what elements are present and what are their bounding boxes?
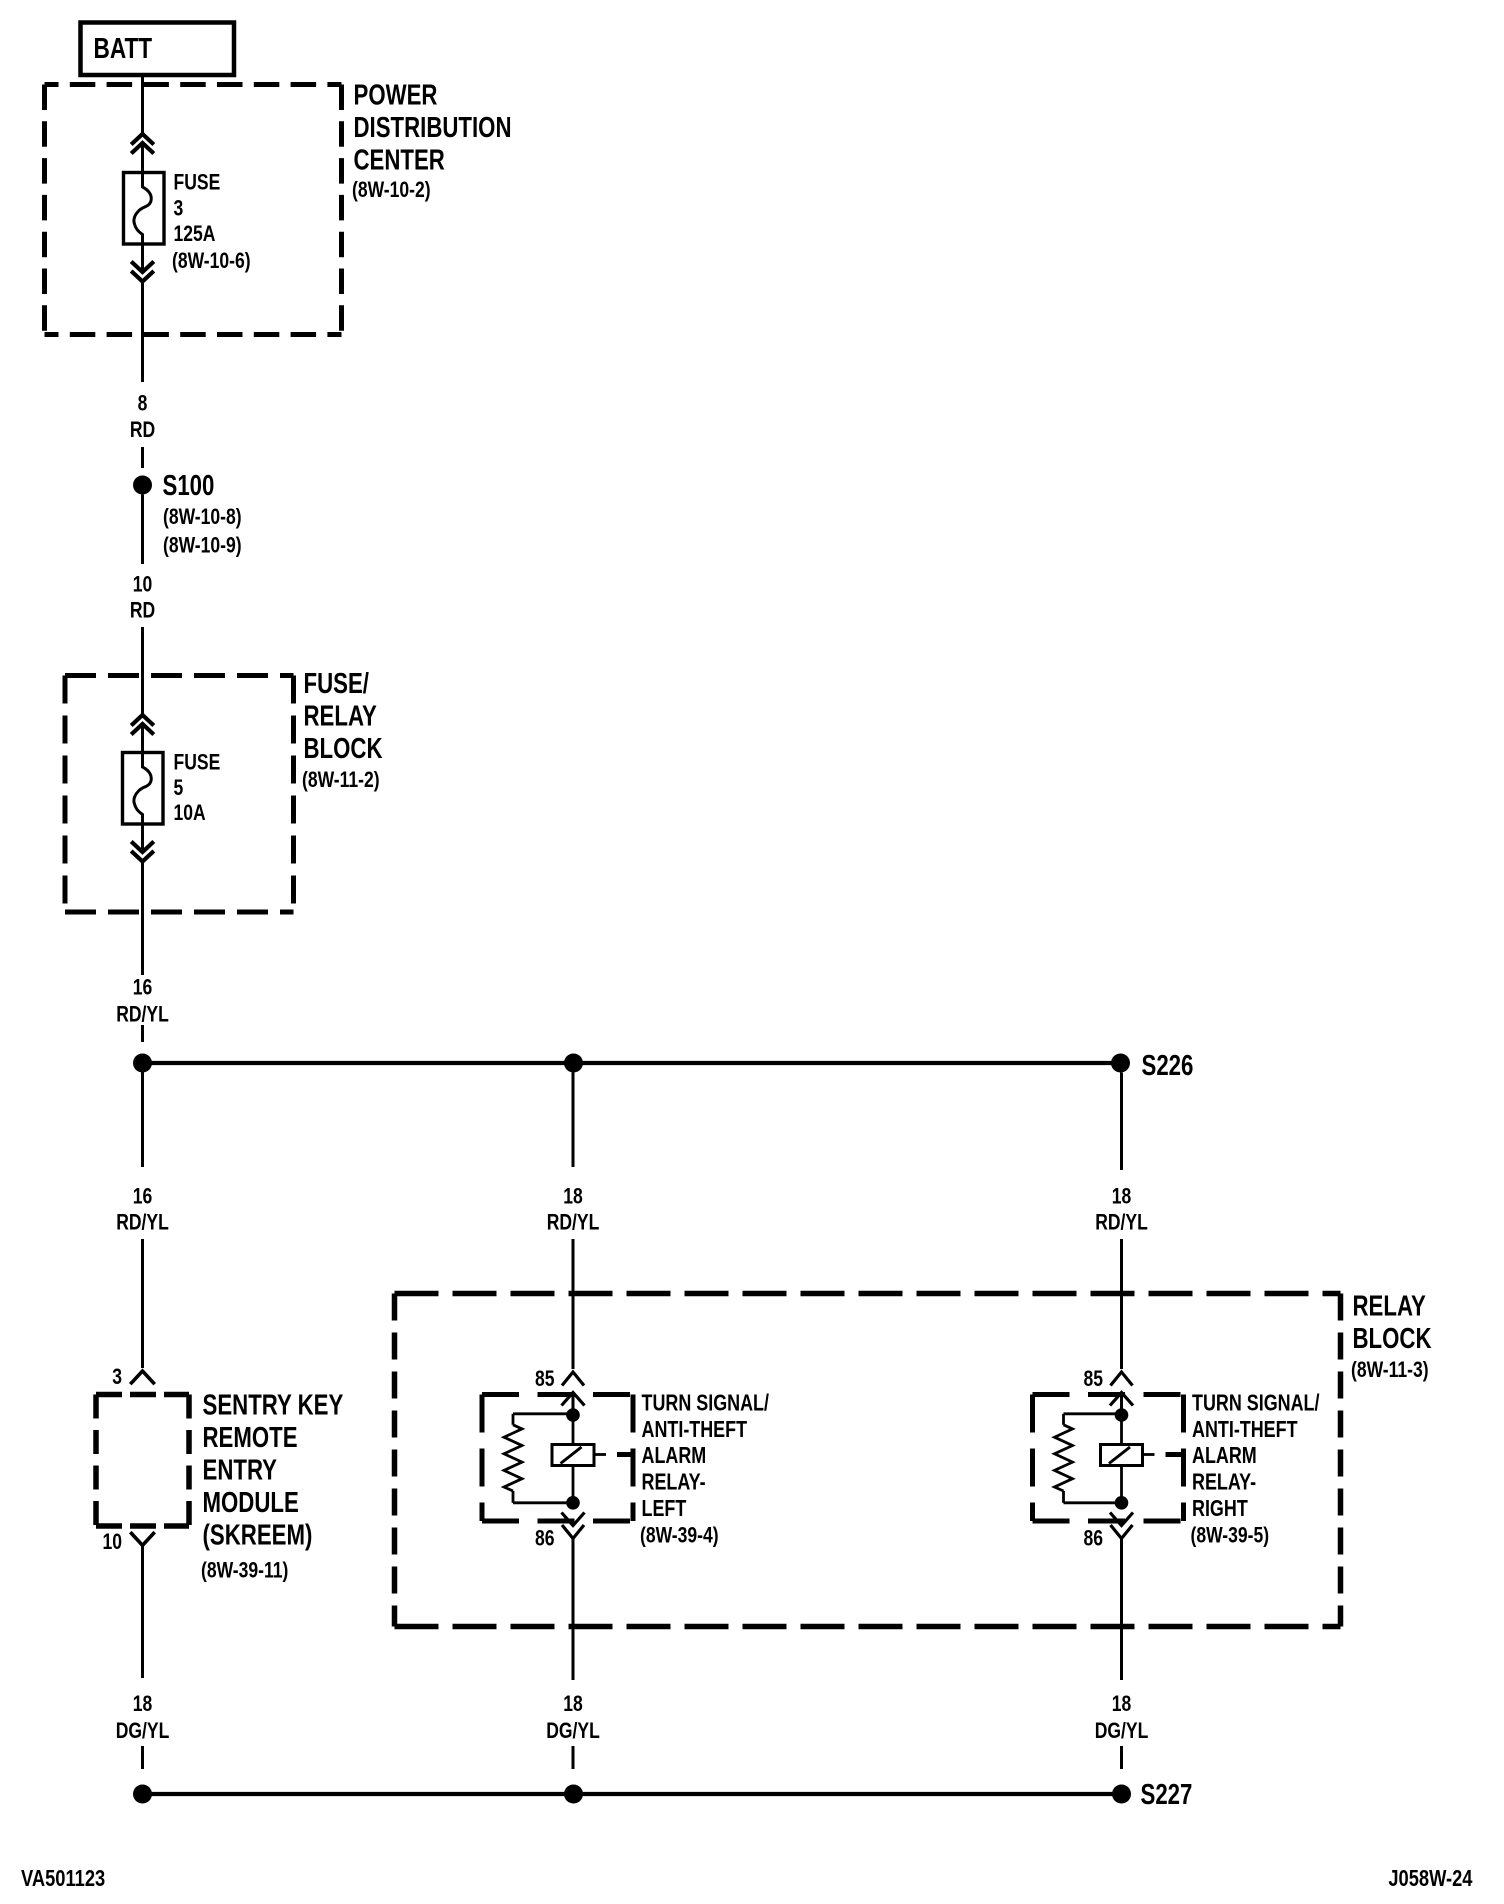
svg-text:RD/YL: RD/YL	[116, 1003, 169, 1028]
svg-text:DISTRIBUTION: DISTRIBUTION	[354, 112, 512, 143]
svg-text:RELAY-: RELAY-	[1192, 1470, 1256, 1496]
svg-text:10A: 10A	[174, 801, 207, 826]
svg-text:RD/YL: RD/YL	[547, 1211, 600, 1236]
svg-text:SENTRY KEY: SENTRY KEY	[203, 1390, 344, 1421]
svg-text:(8W-39-4): (8W-39-4)	[640, 1523, 719, 1548]
svg-text:TURN SIGNAL/: TURN SIGNAL/	[642, 1390, 770, 1416]
svg-text:10: 10	[102, 1530, 122, 1555]
svg-text:ENTRY: ENTRY	[203, 1455, 277, 1486]
svg-text:18: 18	[1112, 1185, 1132, 1210]
svg-text:RELAY: RELAY	[1353, 1291, 1426, 1322]
svg-text:REMOTE: REMOTE	[203, 1422, 298, 1453]
svg-text:BATT: BATT	[94, 31, 153, 64]
svg-text:18: 18	[563, 1185, 583, 1210]
svg-text:(8W-10-2): (8W-10-2)	[352, 178, 431, 203]
svg-text:LEFT: LEFT	[642, 1496, 687, 1522]
svg-text:5: 5	[174, 776, 184, 801]
svg-text:RD: RD	[130, 418, 155, 443]
svg-text:FUSE/: FUSE/	[304, 668, 369, 699]
svg-text:ANTI-THEFT: ANTI-THEFT	[1192, 1417, 1298, 1443]
svg-text:RD/YL: RD/YL	[116, 1211, 169, 1236]
svg-text:DG/YL: DG/YL	[546, 1719, 600, 1744]
svg-text:FUSE: FUSE	[174, 751, 221, 776]
svg-text:ALARM: ALARM	[642, 1443, 707, 1469]
svg-text:VA501123: VA501123	[21, 1866, 105, 1892]
svg-text:16: 16	[133, 1185, 153, 1210]
svg-text:(8W-39-5): (8W-39-5)	[1191, 1523, 1270, 1548]
svg-text:ANTI-THEFT: ANTI-THEFT	[642, 1417, 748, 1443]
svg-text:RELAY-: RELAY-	[642, 1470, 706, 1496]
svg-text:18: 18	[1112, 1692, 1132, 1717]
svg-text:10: 10	[133, 573, 153, 598]
svg-text:(8W-11-2): (8W-11-2)	[302, 768, 380, 793]
svg-text:S226: S226	[1142, 1050, 1194, 1081]
svg-text:S100: S100	[163, 470, 215, 501]
svg-text:(SKREEM): (SKREEM)	[203, 1520, 313, 1551]
svg-text:125A: 125A	[174, 222, 216, 247]
svg-text:J058W-24: J058W-24	[1388, 1866, 1472, 1892]
svg-text:18: 18	[563, 1692, 583, 1717]
svg-text:ALARM: ALARM	[1192, 1443, 1257, 1469]
svg-text:DG/YL: DG/YL	[1095, 1719, 1149, 1744]
svg-text:(8W-39-11): (8W-39-11)	[201, 1559, 288, 1584]
svg-text:BLOCK: BLOCK	[304, 733, 383, 764]
svg-text:BLOCK: BLOCK	[1353, 1323, 1432, 1354]
svg-text:3: 3	[112, 1365, 122, 1390]
svg-text:RELAY: RELAY	[304, 701, 377, 732]
svg-text:RD: RD	[130, 599, 155, 624]
svg-text:(8W-10-8): (8W-10-8)	[163, 505, 242, 530]
svg-text:S227: S227	[1141, 1779, 1193, 1810]
svg-text:POWER: POWER	[354, 80, 438, 111]
svg-text:8: 8	[138, 392, 148, 417]
svg-text:DG/YL: DG/YL	[116, 1719, 170, 1744]
svg-text:16: 16	[133, 976, 153, 1001]
svg-text:(8W-10-9): (8W-10-9)	[163, 534, 242, 559]
svg-text:TURN SIGNAL/: TURN SIGNAL/	[1192, 1390, 1320, 1416]
svg-text:CENTER: CENTER	[354, 145, 445, 176]
svg-text:85: 85	[535, 1367, 555, 1392]
svg-text:FUSE: FUSE	[174, 171, 221, 196]
svg-text:85: 85	[1083, 1367, 1103, 1392]
svg-text:(8W-11-3): (8W-11-3)	[1351, 1358, 1429, 1383]
svg-text:18: 18	[133, 1692, 153, 1717]
svg-text:RD/YL: RD/YL	[1095, 1211, 1148, 1236]
svg-text:RIGHT: RIGHT	[1192, 1496, 1248, 1522]
svg-text:86: 86	[1083, 1527, 1103, 1552]
svg-text:(8W-10-6): (8W-10-6)	[172, 249, 251, 274]
svg-text:86: 86	[535, 1527, 555, 1552]
svg-text:MODULE: MODULE	[203, 1487, 299, 1518]
svg-text:3: 3	[174, 196, 184, 221]
